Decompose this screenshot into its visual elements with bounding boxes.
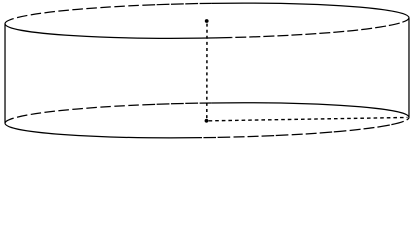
top ellipse dashed top-left arc bbox=[5, 3, 211, 23]
top ellipse dashed bottom-right arc bbox=[232, 18, 409, 38]
cylinder right side bbox=[408, 18, 410, 118]
bottom ellipse solid bottom-left arc bbox=[5, 123, 202, 138]
dashed axis line bbox=[206, 24, 208, 119]
top ellipse solid top-right arc bbox=[211, 3, 409, 18]
top ellipse solid bottom-left arc bbox=[5, 24, 232, 39]
bottom ellipse dashed bottom-right arc bbox=[202, 117, 409, 137]
bottom ellipse solid top-right arc bbox=[211, 103, 409, 118]
bottom ellipse dashed top-left arc bbox=[5, 103, 211, 123]
bottom center dot bbox=[205, 119, 209, 123]
dashed radius line bbox=[209, 117, 408, 120]
cylinder left side bbox=[4, 24, 6, 124]
top center dot bbox=[205, 19, 209, 23]
